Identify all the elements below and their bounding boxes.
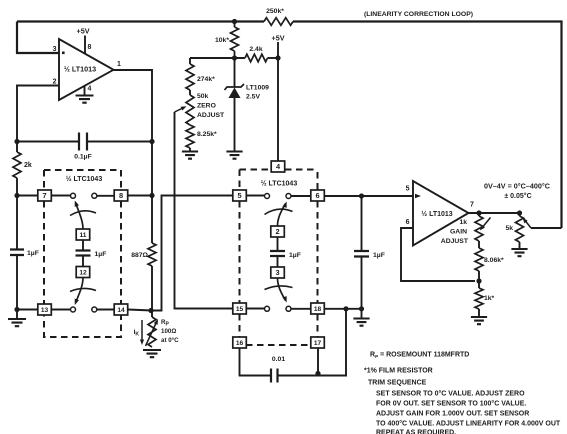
pin 11 xyxy=(76,229,90,240)
wire 0.1uF feedback cap horizontal xyxy=(17,141,152,143)
wire pin2 to flying cap xyxy=(277,237,279,251)
resistor 274k xyxy=(186,58,215,95)
wire pin16 to 0.01 cap xyxy=(240,348,272,376)
svg-text:(LINEARITY CORRECTION LOOP): (LINEARITY CORRECTION LOOP) xyxy=(364,11,473,18)
svg-text:RP = ROSEMOUNT 118MFRTD: RP = ROSEMOUNT 118MFRTD xyxy=(370,352,469,360)
svg-text:5: 5 xyxy=(237,191,241,200)
wire pin18 to ground node xyxy=(325,306,365,311)
svg-text:1k: 1k xyxy=(459,219,467,226)
pin 13 xyxy=(38,304,52,315)
svg-text:± 0.05°C: ± 0.05°C xyxy=(504,192,531,200)
svg-text:8: 8 xyxy=(119,191,123,200)
LTC1043 left dashed box xyxy=(44,170,121,337)
wire U1B output xyxy=(469,210,523,215)
svg-text:17: 17 xyxy=(314,340,322,347)
wire contact to pin14 xyxy=(97,309,114,311)
pin 14 xyxy=(114,304,128,315)
svg-text:100Ω: 100Ω xyxy=(161,328,176,335)
svg-text:SET SENSOR TO 0°C VALUE. ADJUS: SET SENSOR TO 0°C VALUE. ADJUST ZERO xyxy=(376,390,525,398)
svg-text:8: 8 xyxy=(88,44,92,51)
svg-text:2.5V: 2.5V xyxy=(246,94,260,101)
wire pin7 to node xyxy=(17,195,38,197)
svg-text:3: 3 xyxy=(53,46,57,53)
svg-text:1µF: 1µF xyxy=(289,252,301,259)
svg-text:15: 15 xyxy=(236,306,244,313)
svg-text:at 0°C: at 0°C xyxy=(161,337,179,344)
switch arm S1a xyxy=(70,200,96,229)
switch arm S2b xyxy=(265,278,293,303)
svg-text:887Ω: 887Ω xyxy=(131,252,148,259)
wire kelvin sense to pin 5 of LTC1043 right xyxy=(151,196,233,311)
LTC1043 right label xyxy=(261,180,298,188)
switch contact S1b left xyxy=(71,307,76,312)
ground sensor xyxy=(143,350,161,357)
switch contact S2b left xyxy=(265,306,270,311)
ground 8.25k xyxy=(182,148,198,159)
resistor 250k linearity xyxy=(264,8,293,25)
wire U1B pin6 feedback xyxy=(401,228,475,281)
svg-text:10k*: 10k* xyxy=(215,37,229,44)
op-amp U1A 1/2 LT1013 xyxy=(59,39,114,100)
LTC1043 left label xyxy=(66,175,103,183)
resistor 8.06k xyxy=(475,241,504,281)
svg-text:1: 1 xyxy=(117,61,121,68)
svg-text:2k: 2k xyxy=(24,162,32,169)
LTC1043 right dashed box xyxy=(240,170,318,346)
wire pin14 to sensor node xyxy=(128,310,152,311)
resistor 8.25k xyxy=(186,125,217,148)
capacitor 0.1uF xyxy=(74,133,92,161)
switch contact S1b right xyxy=(92,307,97,312)
svg-text:LT1009: LT1009 xyxy=(246,85,269,92)
pin 4 xyxy=(271,161,285,172)
svg-text:1µF: 1µF xyxy=(373,252,385,259)
capacitor 1uF left xyxy=(10,250,39,258)
switch contact S1a right xyxy=(92,193,97,198)
label Rp value xyxy=(161,319,179,344)
svg-text:1µF: 1µF xyxy=(27,250,39,257)
wire pin7 to switch contact xyxy=(51,195,71,197)
svg-text:+5V: +5V xyxy=(272,34,285,43)
svg-text:TRIM SEQUENCE: TRIM SEQUENCE xyxy=(368,380,427,387)
svg-text:250k*: 250k* xyxy=(266,8,284,15)
pin 7 xyxy=(38,190,52,201)
wire contact to pin8 xyxy=(97,195,114,197)
svg-text:11: 11 xyxy=(80,232,87,239)
svg-text:8.06k*: 8.06k* xyxy=(484,257,504,264)
wire node to pin13 xyxy=(17,309,38,311)
svg-text:2: 2 xyxy=(275,227,279,236)
sensor Rp platinum RTD xyxy=(146,317,160,347)
switch contact S2b right xyxy=(286,306,291,311)
wire zero-adjust wiper to pin 15 xyxy=(175,112,234,309)
svg-text:ADJUST GAIN FOR 1.000V OUT. SE: ADJUST GAIN FOR 1.000V OUT. SET SENSOR xyxy=(376,411,529,418)
wire 0.01 node up to ground rail xyxy=(318,309,346,376)
wire pin13 to switch contact xyxy=(51,309,71,311)
svg-text:TO 400°C VALUE. ADJUST LINEARI: TO 400°C VALUE. ADJUST LINEARITY FOR 4.0… xyxy=(376,420,561,428)
svg-text:1k*: 1k* xyxy=(484,295,495,302)
wire top loop from noninverting input node to linearity feedback xyxy=(17,22,562,229)
wire op-amp U1A pin 3 input from top rail xyxy=(17,22,59,54)
resistor 887ohm xyxy=(131,243,156,266)
pin 17 xyxy=(311,337,325,348)
svg-text:½ LTC1043: ½ LTC1043 xyxy=(66,175,103,183)
U1A pin 1 label xyxy=(117,61,121,68)
capacitor 1uF hold xyxy=(354,196,385,309)
wire pin6 to op-amp xyxy=(325,193,414,198)
svg-text:13: 13 xyxy=(41,307,49,314)
capacitor 1uF flying left xyxy=(76,251,107,259)
supply +5V right xyxy=(272,34,285,162)
svg-text:5k: 5k xyxy=(505,225,513,232)
U1A pin 4 to ground xyxy=(76,86,94,103)
svg-text:2.4k: 2.4k xyxy=(249,46,262,53)
svg-text:*1% FILM RESISTOR: *1% FILM RESISTOR xyxy=(364,368,433,375)
node reference xyxy=(232,55,237,60)
node junction pin2/0.1uF xyxy=(14,139,19,144)
potentiometer 5k linearity xyxy=(505,213,523,249)
notes text block xyxy=(364,352,561,434)
label linearity correction loop xyxy=(364,11,473,18)
switch contact S2a left xyxy=(265,194,270,199)
svg-text:ADJUST: ADJUST xyxy=(197,112,225,119)
svg-text:5: 5 xyxy=(406,186,410,193)
node junction pin13/ground xyxy=(14,307,19,312)
U1B pin 6 label xyxy=(406,219,410,226)
wire pin11 to flying cap xyxy=(82,240,84,251)
resistor 2k xyxy=(13,152,32,178)
svg-text:1µF: 1µF xyxy=(95,251,107,258)
ground LT1009 xyxy=(226,152,242,159)
capacitor 0.01 xyxy=(271,356,285,383)
label output voltage xyxy=(484,182,550,201)
svg-text:0.1µF: 0.1µF xyxy=(74,154,92,161)
node junction output rail / 0.1uF xyxy=(149,139,154,144)
svg-text:8.25k*: 8.25k* xyxy=(197,131,217,138)
U1B pin 7 label xyxy=(470,202,474,209)
pin 16 xyxy=(233,337,247,348)
resistor 1k ground leg xyxy=(475,281,495,317)
node junction sensor top xyxy=(148,308,153,313)
svg-text:ZERO: ZERO xyxy=(197,103,216,110)
svg-text:7: 7 xyxy=(470,202,474,209)
node 10k top xyxy=(232,19,237,24)
potentiometer 1k gain adjust xyxy=(441,213,491,245)
svg-text:+5V: +5V xyxy=(77,27,90,36)
wire flying cap to pin12 xyxy=(82,256,84,268)
current Ik arrow xyxy=(134,320,145,345)
U1A pin 8 supply +5V xyxy=(77,27,92,54)
svg-text:2: 2 xyxy=(53,79,57,86)
ground 1k xyxy=(471,317,487,324)
svg-text:274k*: 274k* xyxy=(197,76,215,83)
svg-text:6: 6 xyxy=(406,219,410,226)
wire flying cap to pin3 xyxy=(277,256,279,267)
wire op-amp U1A pin 2 feedback rail (left vertical) xyxy=(17,86,59,311)
wire contact to pin18 xyxy=(291,308,311,310)
svg-text:3: 3 xyxy=(275,268,279,277)
pin 2 xyxy=(271,226,285,237)
U1A pin 2 label xyxy=(53,79,57,86)
U1A pin 3 label xyxy=(53,46,57,53)
svg-text:7: 7 xyxy=(42,191,46,200)
svg-text:6: 6 xyxy=(315,191,319,200)
svg-text:ADJUST: ADJUST xyxy=(441,238,469,245)
pin 15 xyxy=(233,303,247,314)
ground right block xyxy=(353,309,369,326)
pin 8 xyxy=(114,190,128,201)
svg-text:12: 12 xyxy=(79,270,87,277)
node 0.01/pin17 xyxy=(315,371,320,376)
svg-text:0.01: 0.01 xyxy=(272,356,285,363)
switch arm S1b xyxy=(70,278,96,306)
svg-text:GAIN: GAIN xyxy=(450,229,467,236)
capacitor 1uF flying right xyxy=(270,251,301,259)
ground 5k xyxy=(511,249,527,256)
wire 0.01 cap to pin17 node xyxy=(278,348,319,376)
ground left rail xyxy=(8,310,26,327)
svg-text:REPEAT AS REQUIRED.: REPEAT AS REQUIRED. xyxy=(376,430,456,434)
svg-text:½ LT1013: ½ LT1013 xyxy=(421,210,452,218)
resistor 2.4k xyxy=(245,46,268,62)
svg-text:18: 18 xyxy=(314,306,322,313)
wire pin8 to output rail xyxy=(128,193,155,198)
wire contact to pin6 xyxy=(291,195,311,197)
pin 5 xyxy=(233,190,247,201)
resistor 10k xyxy=(215,22,239,59)
wire reference node horizontal xyxy=(190,57,278,59)
op-amp U1B 1/2 LT1013 xyxy=(413,181,469,246)
pin 12 xyxy=(76,267,90,278)
wire pin5 to contact xyxy=(247,195,265,197)
switch arm S2a xyxy=(265,201,293,226)
wire pin15 to contact xyxy=(247,308,265,310)
switch contact S2a right xyxy=(286,194,291,199)
zener LT1009 2.5V xyxy=(225,58,270,152)
pin 3 xyxy=(271,267,285,278)
wire U1A output rail down to sensor node xyxy=(114,70,153,317)
U1B pin 5 label xyxy=(406,186,410,193)
svg-text:16: 16 xyxy=(236,340,244,347)
svg-text:14: 14 xyxy=(117,307,125,314)
potentiometer 50k zero adjust xyxy=(175,93,226,125)
pin 18 xyxy=(311,303,325,314)
node feedback junction xyxy=(476,278,481,283)
svg-text:FOR 0V OUT. SET SENSOR TO 100°: FOR 0V OUT. SET SENSOR TO 100°C VALUE. xyxy=(376,400,526,408)
wire linearity feedback to 5k wiper xyxy=(521,216,562,228)
svg-text:50k: 50k xyxy=(197,93,209,100)
svg-text:½ LT1013: ½ LT1013 xyxy=(64,65,96,74)
svg-text:4: 4 xyxy=(88,86,92,93)
svg-text:½ LTC1043: ½ LTC1043 xyxy=(261,180,298,188)
svg-text:0V–4V = 0°C–400°C: 0V–4V = 0°C–400°C xyxy=(484,182,550,191)
node junction pin2/pin7 xyxy=(14,193,19,198)
switch contact S1a left xyxy=(71,193,76,198)
pin 6 xyxy=(311,190,325,201)
